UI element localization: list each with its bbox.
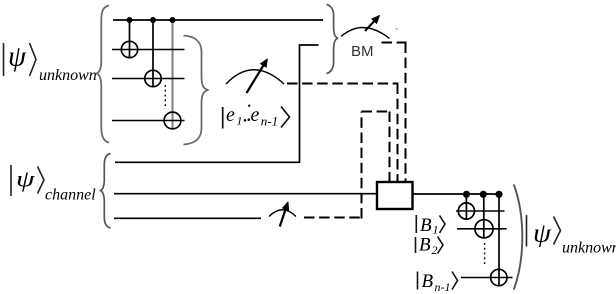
control dot 1 <box>127 17 133 23</box>
control dot 6 <box>495 191 502 198</box>
wire: channel line 1 <box>115 45 319 162</box>
wire: vertical control 2 <box>152 20 154 87</box>
CNOT target 2 <box>145 70 161 86</box>
big paren grouping output <box>514 185 523 290</box>
BM meter needle <box>365 16 379 31</box>
brace right of encoder block <box>184 36 209 145</box>
wire: channel line 3 <box>114 217 261 219</box>
channel meter arc <box>269 210 296 217</box>
ket label |B1> <box>416 215 445 237</box>
ket label |psi>_unknown (left) <box>4 42 97 85</box>
classical dashed wire from syndrome meter <box>287 83 399 85</box>
wire: vertical control 6 <box>498 194 500 286</box>
wire: ancilla line Bn-1 <box>461 277 513 279</box>
ket label |psi>_channel <box>11 165 96 204</box>
classical dashed vertical down to decoder <box>389 112 391 183</box>
CNOT target 5 <box>475 220 493 238</box>
wire: channel line 2 <box>114 193 377 195</box>
svg-text:e: e <box>226 104 235 126</box>
svg-text:B: B <box>419 235 431 256</box>
CNOT target 3 <box>164 112 181 129</box>
wire: vertical control 3 <box>172 20 174 129</box>
syndrome meter needle <box>247 60 268 94</box>
classical dashed wire from channel meter <box>304 217 363 219</box>
brace left of encoder block <box>96 6 109 143</box>
svg-text:ψ: ψ <box>8 42 27 73</box>
svg-text:ψ: ψ <box>16 167 35 192</box>
classical dashed vertical from BM to decoder <box>405 43 407 183</box>
wire: vertical control 4 <box>465 194 467 219</box>
svg-text:1: 1 <box>433 223 439 237</box>
control dot 4 <box>463 191 470 198</box>
control dot 3 <box>170 17 176 23</box>
svg-text:ψ: ψ <box>533 219 552 248</box>
wire: qubit line 3 <box>112 78 185 80</box>
svg-text:1: 1 <box>237 114 243 128</box>
BM meter arc <box>341 27 390 38</box>
decoder box <box>377 182 413 209</box>
svg-text:unknown: unknown <box>39 67 97 84</box>
syndrome meter arc <box>226 70 284 84</box>
svg-text:B: B <box>420 215 432 236</box>
CNOT target 1 <box>121 41 137 57</box>
svg-text:n-1: n-1 <box>435 280 451 294</box>
ket label |B2> <box>416 235 444 258</box>
svg-text:unknown: unknown <box>562 240 616 257</box>
svg-text:2: 2 <box>432 243 438 257</box>
channel meter needle <box>280 203 288 227</box>
ket label |psi>_unknown (right) <box>527 215 616 257</box>
CNOT target 6 <box>491 269 507 285</box>
stray mark <box>395 28 397 30</box>
classical dashed vertical up <box>361 112 363 219</box>
svg-text:B: B <box>422 271 434 292</box>
brace right before BM <box>327 5 339 74</box>
CNOT target 4 <box>458 203 474 219</box>
wire: vertical control 1 <box>129 20 131 58</box>
svg-text:e: e <box>251 104 260 126</box>
wire: decoder output line <box>413 193 499 195</box>
svg-text:channel: channel <box>45 187 96 204</box>
wire: ancilla line B2 <box>457 228 507 230</box>
classical dashed vertical from syndrome wire to decoder <box>397 84 399 183</box>
svg-text:BM: BM <box>351 43 374 60</box>
wire: qubit line 4 <box>112 120 185 122</box>
ket label |Bn-1> <box>418 271 458 294</box>
control dot 5 <box>480 191 487 198</box>
control dot 2 <box>150 17 156 23</box>
wire: ancilla line B1 <box>456 210 505 212</box>
svg-text:n-1: n-1 <box>261 114 278 129</box>
ellipsis dotted line (decoder block) <box>484 243 486 264</box>
ket label |e1..en-1> <box>223 104 290 129</box>
classical dashed wire from BM <box>382 42 407 44</box>
brace left of channel lines <box>100 154 111 229</box>
classical dashed horizontal connector <box>362 111 391 113</box>
wire: qubit line 2 <box>112 49 185 51</box>
ellipsis dotted line (encoder) <box>164 85 166 109</box>
wire: top control line <box>113 19 323 21</box>
wire: vertical control 5 <box>483 194 485 238</box>
